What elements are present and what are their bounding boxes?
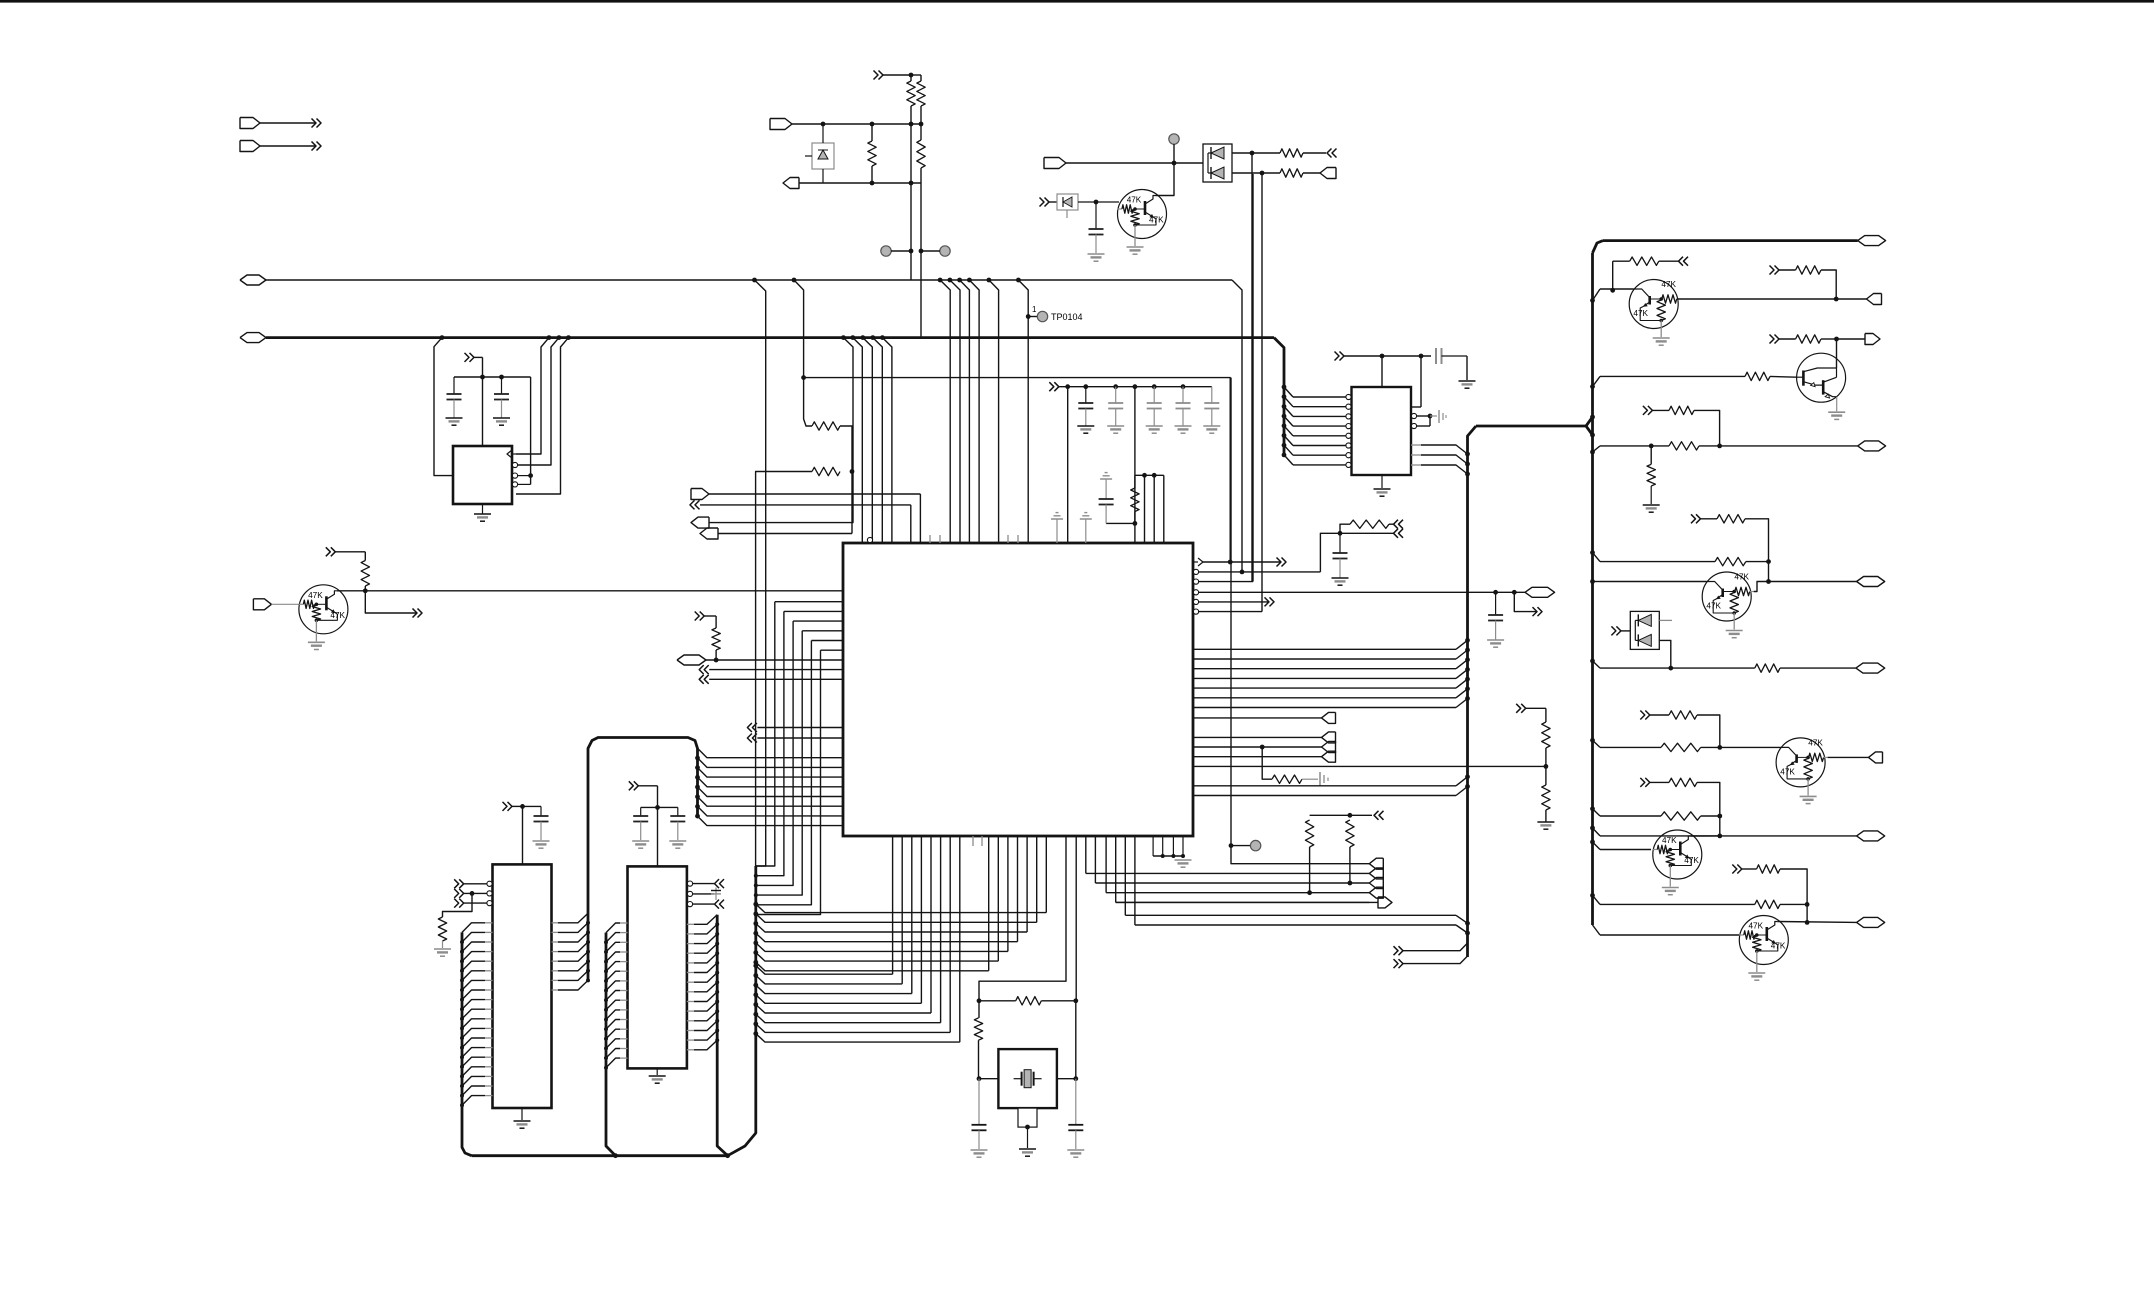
row4 wire: [1590, 550, 1595, 555]
bus entry tap B6: [1016, 278, 1021, 283]
bus2 entry taps to IC1: [440, 335, 445, 340]
bus2 entry tap C1: [850, 335, 855, 340]
resistor R3 pulldown: [443, 893, 473, 917]
transistor Q1 47K: [299, 585, 348, 634]
bus1 bend down right: [1232, 280, 1242, 365]
net flags right of IC: [1193, 717, 1322, 719]
wire pin 766 to resistor stack: [1193, 765, 1546, 767]
crystal case tab: [1018, 1108, 1037, 1127]
bus entry tap B3: [957, 278, 962, 283]
bus entry tap B1: [938, 278, 943, 283]
svg-text:47K: 47K: [1662, 836, 1677, 845]
wires U10 bottom group3 right: [1085, 836, 1087, 873]
resistor R105: [812, 422, 840, 430]
wire pullup to pin: [1153, 475, 1155, 543]
dual diode box D2: [1203, 144, 1232, 182]
bus entry tap B5: [987, 278, 992, 283]
svg-text:47K: 47K: [1771, 942, 1786, 951]
ground pins U10 bottom right: [1152, 836, 1154, 856]
net arrow left upper: [690, 500, 695, 509]
wire U10 right mid pin 5: [1193, 687, 1456, 689]
bus U4 right vertical: [717, 915, 727, 1156]
resistor R131: [1280, 169, 1303, 177]
wire crystal feed left: [979, 836, 1066, 1001]
transistor Q10 47K: [1629, 280, 1678, 329]
wire right pin 612: [1199, 611, 1262, 613]
row5 wire: [1590, 579, 1595, 584]
net arrow left A: [699, 665, 704, 674]
transistor Q12 47K: [1702, 572, 1751, 621]
resistor R29: [1755, 664, 1780, 672]
row7 wire: [1590, 738, 1595, 743]
row9 wire: [1590, 826, 1595, 831]
wire VMID horizontal: [770, 119, 792, 130]
resistor R28: [1715, 557, 1746, 565]
resistor R34: [1757, 865, 1780, 873]
pull-up arrow row10: [1732, 865, 1737, 874]
power arrow U5: [1335, 352, 1340, 361]
wire U4 cap row: [641, 806, 678, 808]
capacitor C7 horizontal: [1435, 348, 1437, 364]
transistor Q13 47K: [1776, 738, 1825, 787]
svg-text:47K: 47K: [1684, 856, 1699, 865]
wire U10 left pin L3: [784, 610, 843, 612]
ground-up pin B: [1080, 518, 1092, 520]
net flag row1: [1836, 298, 1866, 300]
svg-text:1: 1: [1032, 305, 1037, 314]
U4 right top pins: [687, 881, 692, 886]
power entry arrow VCC top: [874, 71, 879, 80]
wire pullup to pin: [1163, 475, 1165, 543]
input flag Q1: [253, 599, 271, 610]
wire Q10 output: [1677, 298, 1837, 300]
wires right pins to bus lower: [1193, 785, 1456, 787]
svg-text:47K: 47K: [1149, 216, 1164, 225]
wire U10 left pin L4: [793, 620, 843, 622]
wire U10 right mid pin 7: [1193, 707, 1456, 709]
resistor R116: [1305, 820, 1313, 847]
svg-text:47K: 47K: [1749, 922, 1764, 931]
resistor R106: [812, 467, 840, 475]
wire row4-5 link: [1768, 562, 1770, 582]
IC U10 main processor box: [843, 543, 1193, 836]
bus2 bend down: [1274, 338, 1284, 456]
row1 wire: [1590, 298, 1595, 303]
wire U10 left pin L2: [775, 601, 843, 603]
resistor R31: [1661, 743, 1701, 751]
resistor R121: [974, 1018, 982, 1040]
branch arrow Q1 out: [365, 591, 416, 613]
IC U2 clock pin: [512, 453, 516, 455]
wire cap row feed down: [1067, 387, 1069, 543]
resistor R103: [917, 140, 925, 168]
wire U10 right mid pin 3: [1193, 668, 1456, 670]
bus wire B2 thick: [266, 336, 1274, 339]
resistor R2: [712, 628, 720, 650]
resistor R32: [1669, 778, 1697, 786]
capacitor C16: [1211, 387, 1213, 403]
row2 wire: [1590, 384, 1595, 389]
wire U5 top stub: [1381, 356, 1383, 387]
bus mid vertical: [728, 866, 756, 1156]
bus2 entry tap C2: [860, 335, 865, 340]
capacitor C6: [1095, 202, 1097, 229]
net label OSC: [677, 655, 706, 665]
transistor Q15 47K: [1739, 916, 1788, 965]
pull-up arrow resistor stack: [1516, 704, 1521, 713]
wires U10 bottom group1 to left bus: [892, 836, 894, 974]
U4 left pin bundle: [620, 922, 628, 924]
dual diode box D3: [1611, 626, 1616, 635]
capacitor C20: [1106, 522, 1135, 524]
IC U5 box: [1352, 387, 1412, 475]
transistor Q2 47K: [1118, 190, 1167, 239]
wire U10 left pin L6: [811, 640, 843, 642]
wire Q2 collector: [1156, 163, 1175, 196]
wires U10 bottom group2 to left bus: [1045, 836, 1047, 913]
resistor R27: [1717, 515, 1745, 523]
wire U10 right mid pin 2: [1193, 658, 1456, 660]
resistor R115: [1346, 820, 1354, 847]
wire U10 right mid pin 6: [1193, 697, 1456, 699]
resistor R130: [1280, 149, 1303, 157]
wire lower horizontal: [783, 178, 799, 189]
bus entry big IC lower-left 8: [695, 814, 700, 819]
capacitor C31: [1075, 1079, 1077, 1125]
net label row3: [1720, 445, 1858, 447]
capacitor C14: [1152, 384, 1157, 389]
bus entry tap B2: [948, 278, 953, 283]
IC U10 top-left pin bubble: [867, 537, 872, 542]
net label bus2 left: [240, 333, 266, 343]
power arrow U4: [629, 781, 634, 790]
bus2 entry tap D2: [557, 335, 562, 340]
pull-up arrow Q1: [326, 547, 331, 556]
bus U4 left vertical: [606, 933, 616, 1156]
bottom bus thick: [472, 1154, 728, 1157]
resistor R23: [1796, 335, 1821, 343]
node junction top: [909, 73, 914, 78]
pull-up arrow row2: [1770, 335, 1775, 344]
wire U2 vertical right: [530, 377, 532, 484]
wire cap row U2: [454, 376, 531, 378]
capacitor C15: [1181, 384, 1186, 389]
resistor R30: [1669, 711, 1697, 719]
svg-text:47K: 47K: [1808, 738, 1823, 747]
IC U10 clock out pin: [1193, 561, 1198, 563]
net arrow left C: [747, 723, 752, 732]
resistor R111: [1350, 520, 1389, 528]
wire Q1 collector out: [337, 590, 843, 592]
test pad TP2: [940, 246, 950, 256]
IC U3 box: [493, 864, 552, 1108]
svg-text:47K: 47K: [1780, 767, 1795, 776]
net label row9: [1720, 835, 1857, 837]
wire bus1 to IC right pin: [1241, 365, 1243, 572]
U3 left control pins: [487, 881, 492, 886]
U5 right lower pins to bus: [1411, 444, 1421, 446]
capacitor C13: [1113, 384, 1118, 389]
capacitor C5: [677, 807, 679, 816]
gray stubs bottom: [972, 836, 974, 846]
row10 wire: [1590, 893, 1595, 898]
top-left input connector J1A: [240, 118, 260, 129]
net label bus1 left: [240, 275, 266, 285]
wire right pin 582: [1199, 581, 1253, 583]
resistor R24: [1669, 442, 1699, 450]
resistor R26 pulldown: [1647, 464, 1655, 486]
net label top right: [1603, 239, 1858, 242]
U5 left pins: [1346, 394, 1351, 399]
small ground sideways: [1302, 778, 1318, 780]
ground U5: [1381, 475, 1383, 488]
bus right vertical thick: [1476, 425, 1586, 428]
net arrow left D: [747, 734, 752, 743]
capacitor C22: [1495, 592, 1497, 615]
pin bubbles right: [1193, 569, 1198, 574]
capacitor C1: [453, 377, 455, 394]
test point TP0104: [1026, 314, 1031, 319]
svg-text:47K: 47K: [308, 591, 323, 600]
net flag U10 left: [691, 489, 709, 500]
resistor R112: [1272, 775, 1302, 783]
wire crystal left: [977, 1076, 982, 1081]
bus entry big IC lower-left 6: [695, 794, 700, 799]
U5 right pin 1: [1411, 406, 1421, 408]
title bar top edge: [0, 0, 2154, 3]
stub D3 top out: [1659, 619, 1672, 621]
tiny cap-gnd glyph: [715, 888, 717, 901]
resistor R35: [1755, 900, 1780, 908]
wire D3 bottom out: [1659, 640, 1671, 668]
resistor R20: [1612, 261, 1614, 290]
wire right pin 602: [1199, 601, 1268, 603]
wire Q12 output: [1754, 582, 1769, 592]
pull-down RC on pin 747: [1260, 745, 1265, 750]
svg-text:TP0104: TP0104: [1051, 312, 1083, 322]
resistor R101: [910, 75, 912, 81]
power arrow U2: [465, 353, 470, 362]
wire U10 right mid pin 1: [1193, 648, 1456, 650]
test pad gray right: [1169, 134, 1179, 144]
wire Q15 collector to row: [1777, 921, 1856, 924]
wire pullup to pin: [1144, 475, 1146, 543]
pull-up arrow row8: [1640, 778, 1645, 787]
transistor Q14 47K: [1653, 830, 1702, 879]
capacitor C2: [501, 377, 503, 394]
svg-text:47K: 47K: [1633, 309, 1648, 318]
wire right pin 572: [1199, 571, 1320, 573]
bus entry big IC lower-left 1: [698, 748, 844, 758]
small gray ground U5: [1430, 415, 1437, 417]
ground U3: [521, 1108, 523, 1120]
zener box Z1: [1040, 198, 1045, 207]
resistor R104: [868, 141, 876, 166]
wire pullup to pin: [1134, 475, 1136, 543]
U4 right pin bundle: [687, 923, 694, 925]
transistor Q11 pnp pair: [1797, 353, 1846, 402]
resistor R113: [1542, 722, 1550, 748]
IC U2 box: [453, 446, 512, 504]
resistor R1: [361, 561, 369, 587]
row3 wire: [1590, 450, 1595, 455]
wire to connector CN3: [851, 472, 853, 534]
bus entry tap A3: [792, 278, 797, 283]
branch arrow right: [1514, 592, 1536, 611]
svg-text:47K: 47K: [1734, 573, 1749, 582]
bus entry big IC lower-left 2: [695, 756, 700, 761]
pull-up arrow row1: [1770, 266, 1775, 275]
wire Q14 collector to row: [1691, 835, 1720, 837]
bus2 entry tap D3: [566, 335, 571, 340]
capacitor C21: [1339, 533, 1341, 553]
bus staple thick path: [588, 738, 698, 981]
capacitor C3: [540, 806, 542, 816]
resistor R25: [1669, 406, 1694, 414]
bus wire B1: [266, 279, 1232, 281]
wire pull-up network row: [1133, 384, 1138, 389]
resistor R33: [1661, 812, 1701, 820]
resistor R102: [917, 81, 925, 106]
ground-up pin A: [1051, 518, 1063, 520]
net arrow left B: [699, 675, 704, 684]
U3 right pin fan: [552, 922, 559, 924]
ground U4: [656, 1068, 658, 1075]
net flag row7: [1828, 756, 1869, 758]
resistor R22: [1745, 372, 1770, 380]
wire from tap A3 to far right: [804, 378, 1231, 562]
pull-up arrow row4: [1691, 514, 1696, 523]
bus2 entry tap D1: [547, 335, 552, 340]
resistor pair mid: [1374, 811, 1379, 820]
bus entry big IC lower-left 7: [695, 804, 700, 809]
resistor R110: [1131, 488, 1139, 512]
U5 right pins 2-3: [1411, 413, 1416, 418]
capacitor C30: [978, 1079, 980, 1125]
bus entry big IC lower-left 5: [695, 785, 700, 790]
row8 wire: [1590, 806, 1595, 811]
net label row6: [1856, 663, 1885, 673]
bus2 entry tap C4: [880, 335, 885, 340]
capacitor C12: [1083, 384, 1088, 389]
wire crystal feed right: [1075, 836, 1077, 1001]
power arrow cap row: [1049, 382, 1054, 391]
RC network right: [1320, 533, 1340, 572]
wire U10 right mid pin 4: [1193, 677, 1456, 679]
IC U4 box: [628, 866, 687, 1068]
bus2 entry tap C5 to connector: [841, 335, 846, 340]
pull-up arrow OSC: [695, 612, 700, 621]
row9 base wire: [1590, 840, 1595, 845]
svg-text:47K: 47K: [1127, 196, 1142, 205]
bus U3 left vertical: [462, 932, 472, 1155]
resistor R21: [1796, 266, 1821, 274]
wires bus bottom arrows: [1394, 946, 1399, 955]
power arrow U3: [503, 802, 508, 811]
ground R114: [1537, 821, 1554, 823]
bus entry tap B4: [967, 278, 972, 283]
IC U2 pin bubbles: [512, 462, 517, 467]
wire right pin 592 to net label: [1199, 591, 1525, 593]
svg-text:47K: 47K: [1661, 280, 1676, 289]
wire row2 top feed: [1836, 339, 1838, 368]
bus entry tap A2: [752, 278, 757, 283]
input flag right: [1044, 158, 1066, 169]
net label row11: [1857, 917, 1885, 927]
net label row5: [1769, 581, 1857, 583]
bus Y merge: [1586, 417, 1593, 426]
resistor R114: [1542, 785, 1550, 810]
wire diode outputs down: [1251, 153, 1253, 582]
crystal X1 box: [998, 1049, 1057, 1108]
bus right main vertical thick: [1591, 253, 1594, 925]
wire U10 left pin L5: [802, 630, 843, 632]
pull-up arrow row7: [1640, 711, 1645, 720]
capacitor C4: [640, 807, 642, 816]
resistor R120: [977, 998, 982, 1003]
bus entry big IC lower-left 4: [695, 775, 700, 780]
ground C7: [1459, 380, 1476, 382]
diode D1 in box: [812, 143, 834, 169]
row11 wire: [1593, 925, 1601, 935]
row6 wire: [1590, 659, 1595, 664]
test pad TP1: [881, 246, 891, 256]
wire crystal right: [1073, 1076, 1078, 1081]
wire TP chain: [1230, 378, 1232, 846]
wire tap A3 lower segment: [804, 378, 812, 426]
bus entry big IC lower-left 3: [695, 765, 700, 770]
svg-text:47K: 47K: [330, 611, 345, 620]
svg-text:47K: 47K: [1706, 602, 1721, 611]
bus2 entry tap C3: [870, 335, 875, 340]
top-left input connector J1B: [240, 141, 260, 152]
pull-up arrow row3: [1643, 406, 1648, 415]
gray pin stubs top: [929, 535, 931, 543]
U3 left pin bundle: [485, 922, 493, 924]
ground U2: [482, 504, 484, 514]
wire U10 left pin L7: [821, 649, 844, 651]
wire diode top out: [1232, 152, 1280, 154]
net flags below right: [1369, 858, 1383, 869]
wire diode bottom out: [1232, 172, 1280, 174]
wire zener out: [1078, 201, 1119, 203]
